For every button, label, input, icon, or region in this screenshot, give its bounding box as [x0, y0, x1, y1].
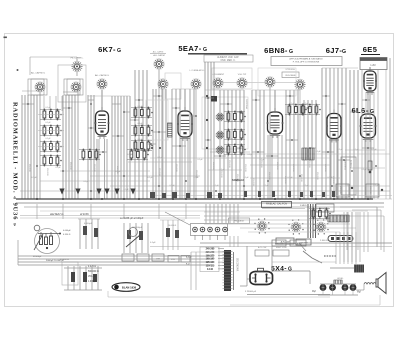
svg-text:500.000 Ω: 500.000 Ω	[88, 271, 99, 273]
svg-text:250.000: 250.000	[212, 162, 214, 170]
svg-text:ALIMENT. VAR. CAP.: ALIMENT. VAR. CAP.	[217, 56, 239, 59]
svg-text:IN DOBLE: IN DOBLE	[285, 75, 296, 77]
svg-text:F. SVILUPP. DI TENSIONE: F. SVILUPP. DI TENSIONE	[293, 62, 320, 64]
svg-text:0.1μF: 0.1μF	[137, 123, 143, 125]
svg-text:L.CLEMA MOLL: L.CLEMA MOLL	[189, 69, 205, 72]
svg-text:G: G	[342, 49, 346, 55]
svg-text:5EA7-: 5EA7-	[178, 44, 201, 53]
svg-text:20.000 Ω: 20.000 Ω	[168, 225, 177, 227]
svg-text:Mμf: Mμf	[312, 291, 316, 293]
svg-text:0-110: 0-110	[207, 268, 214, 271]
svg-text:VOL. Ω: VOL. Ω	[88, 276, 96, 278]
svg-text:G: G	[203, 47, 207, 53]
svg-text:SOMALIA: SOMALIA	[232, 178, 244, 182]
svg-text:OND. MED. C.: OND. MED. C.	[220, 60, 235, 62]
svg-text:6J7-: 6J7-	[326, 46, 343, 55]
svg-text:0.1μF: 0.1μF	[337, 149, 343, 151]
svg-text:0.1μF: 0.1μF	[45, 107, 51, 109]
svg-text:F.MED.: F.MED.	[300, 205, 308, 207]
svg-text:BLAN 1936: BLAN 1936	[122, 286, 137, 290]
svg-text:250.000: 250.000	[284, 176, 286, 184]
svg-text:2.500 Ω: 2.500 Ω	[320, 240, 328, 242]
svg-text:HEATER: HEATER	[294, 243, 303, 246]
svg-text:su 9U36 μF al 100μF: su 9U36 μF al 100μF	[120, 217, 144, 220]
svg-text:0.1μF: 0.1μF	[197, 159, 203, 161]
svg-text:0.1μF: 0.1μF	[31, 177, 37, 179]
svg-text:250.000: 250.000	[195, 170, 197, 178]
svg-text:RADIOMARELLI - MOD. « 9U36 »: RADIOMARELLI - MOD. « 9U36 »	[12, 102, 19, 227]
svg-text:0.1μF: 0.1μF	[289, 103, 295, 105]
svg-text:0.1μF: 0.1μF	[137, 106, 143, 108]
svg-text:STRUM.A: STRUM.A	[285, 68, 295, 71]
svg-text:6.350 Ω: 6.350 Ω	[63, 234, 71, 236]
svg-text:6K7-: 6K7-	[98, 45, 116, 54]
svg-text:250.000: 250.000	[308, 160, 310, 168]
svg-text:250.000: 250.000	[244, 164, 246, 172]
svg-text:ALL.CAP.M: ALL.CAP.M	[153, 54, 164, 57]
svg-text:500.000 Ω: 500.000 Ω	[344, 160, 346, 170]
svg-text:4.375 Ω: 4.375 Ω	[88, 266, 96, 268]
svg-text:RIVELAZ. CAL.FON: RIVELAZ. CAL.FON	[266, 203, 287, 206]
svg-text:SECONDAR.: SECONDAR.	[236, 258, 239, 272]
svg-text:100.000: 100.000	[369, 186, 371, 194]
svg-text:LUM: LUM	[370, 64, 375, 67]
svg-text:0.1μF: 0.1μF	[361, 169, 367, 171]
svg-text:0.1μF: 0.1μF	[303, 103, 309, 105]
svg-text:250.000: 250.000	[220, 170, 222, 178]
svg-text:0.1μF: 0.1μF	[137, 139, 143, 141]
svg-text:250.000: 250.000	[69, 162, 71, 170]
svg-text:250.000: 250.000	[332, 176, 334, 184]
svg-text:250.000: 250.000	[93, 164, 95, 172]
svg-text:250.000: 250.000	[292, 164, 294, 172]
svg-text:A.F.LOW: A.F.LOW	[275, 243, 283, 246]
svg-text:250.000: 250.000	[175, 164, 177, 172]
svg-text:6BN8-: 6BN8-	[264, 46, 288, 55]
svg-text:G: G	[288, 267, 292, 273]
svg-text:1.000μF: 1.000μF	[88, 281, 97, 283]
svg-text:250.000: 250.000	[260, 160, 262, 168]
svg-text:0.1μF: 0.1μF	[227, 138, 233, 140]
svg-text:4.000μF: 4.000μF	[63, 230, 71, 232]
svg-text:Mμf: Mμf	[357, 292, 361, 294]
svg-text:250.000: 250.000	[46, 168, 48, 176]
svg-text:APPLICA PRIMARI A TUBI BASSI: APPLICA PRIMARI A TUBI BASSI	[289, 58, 323, 61]
svg-text:G: G	[289, 49, 293, 55]
svg-text:alla 5EA7-G: alla 5EA7-G	[50, 213, 64, 216]
svg-text:0.1μF: 0.1μF	[315, 151, 321, 153]
svg-text:4.000μF: 4.000μF	[84, 223, 93, 225]
svg-text:100.000μF: 100.000μF	[132, 227, 143, 229]
svg-text:6E5: 6E5	[363, 45, 378, 54]
svg-text:250.000: 250.000	[228, 160, 230, 168]
svg-text:0.1μF: 0.1μF	[147, 177, 153, 179]
svg-text:al 9U36: al 9U36	[80, 213, 89, 216]
svg-text:0.1μF: 0.1μF	[45, 122, 51, 124]
svg-text:PRODEST: PRODEST	[234, 221, 245, 223]
svg-text:G: G	[117, 48, 121, 54]
svg-text:VGL.TIP: VGL.TIP	[238, 74, 247, 76]
svg-text:3 25000 μF: 3 25000 μF	[245, 291, 257, 293]
svg-text:5X4-: 5X4-	[271, 266, 287, 273]
svg-text:ALL.CAP.MOL: ALL.CAP.MOL	[31, 72, 46, 75]
svg-text:0.1μF: 0.1μF	[55, 167, 61, 169]
svg-text:0.1μF: 0.1μF	[227, 121, 233, 123]
svg-text:250.000: 250.000	[316, 172, 318, 180]
svg-text:250.000: 250.000	[268, 172, 270, 180]
svg-text:250.000: 250.000	[158, 168, 160, 176]
svg-text:50.000 Ω: 50.000 Ω	[350, 160, 352, 169]
svg-text:250.000: 250.000	[276, 162, 278, 170]
svg-text:0.1μF: 0.1μF	[45, 138, 51, 140]
svg-text:ALL.CAP.MOL: ALL.CAP.MOL	[95, 74, 110, 77]
svg-text:ALL.CAP.M: ALL.CAP.M	[153, 51, 164, 54]
svg-text:0.1μF: 0.1μF	[150, 242, 156, 244]
svg-text:SINTONIA: SINTONIA	[245, 99, 248, 109]
svg-text:250.000: 250.000	[252, 178, 254, 186]
svg-text:250.000: 250.000	[324, 164, 326, 172]
svg-text:250.000: 250.000	[116, 166, 118, 174]
svg-text:5 V: 5 V	[186, 263, 190, 266]
svg-text:250.000: 250.000	[28, 164, 30, 172]
svg-text:0.1μF: 0.1μF	[243, 177, 249, 179]
